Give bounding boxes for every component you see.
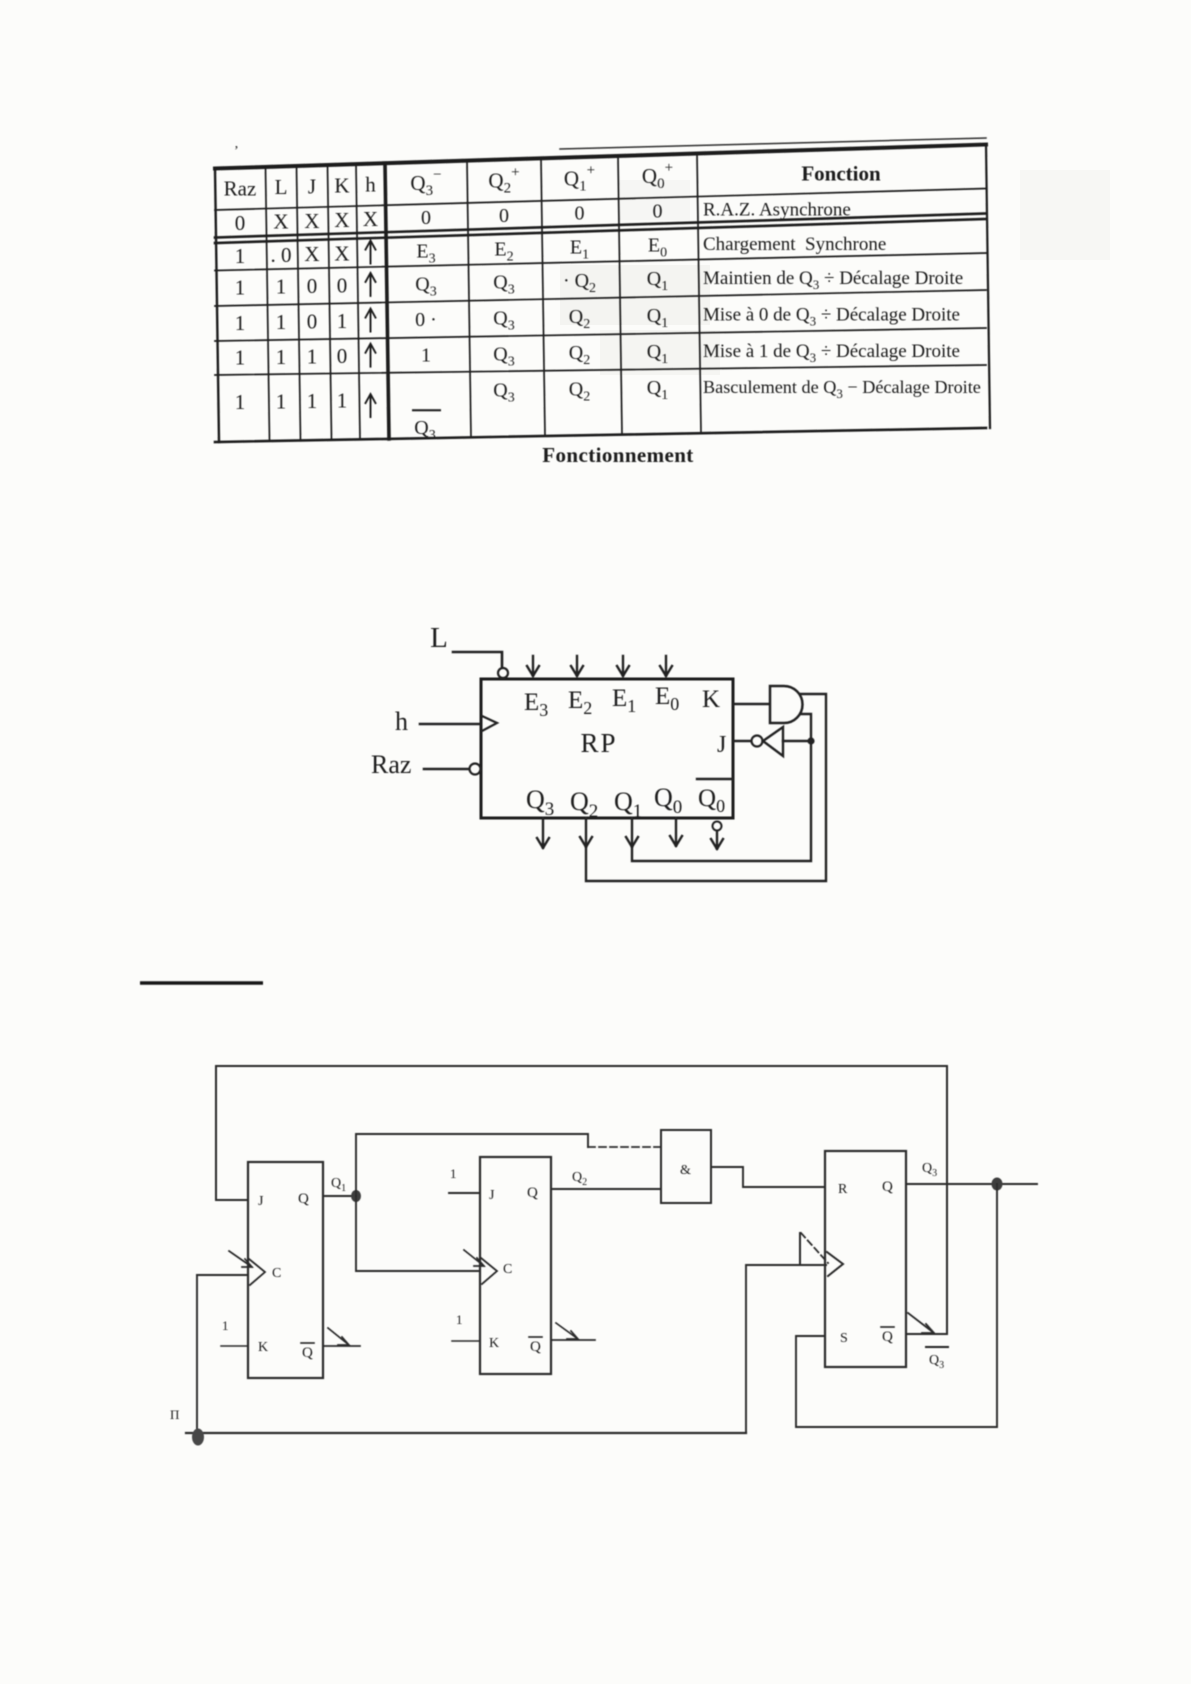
svg-text:1: 1 [235, 276, 246, 300]
bubble on Raz pin [470, 764, 481, 775]
svg-text:’: ’ [234, 144, 239, 159]
svg-text:Q: Q [302, 1345, 313, 1361]
svg-text:Π: Π [170, 1407, 179, 1422]
flip-flop U1 body [248, 1162, 323, 1378]
inverter triangle [763, 727, 783, 756]
svg-text:Q: Q [882, 1179, 893, 1195]
svg-text:1: 1 [456, 1312, 463, 1327]
junction node at clock source [192, 1429, 204, 1446]
U2 clock edge arrow [464, 1250, 484, 1266]
row rule 6 [215, 365, 986, 375]
svg-text:X: X [363, 207, 378, 231]
column divider J|K [328, 165, 332, 440]
svg-text:K: K [702, 686, 720, 713]
bleed-through ghost smudges [560, 170, 1110, 375]
svg-text:1: 1 [222, 1318, 229, 1333]
short heading rule [140, 981, 263, 984]
wire: AND output to U3.R [711, 1167, 825, 1187]
U1 Qbar overline [301, 1342, 314, 1344]
svg-text:Q: Q [298, 1191, 309, 1207]
U3 Qbar overline [881, 1326, 894, 1328]
AND gate U4 body [661, 1130, 711, 1203]
wire AND top output to outer loop [586, 694, 826, 881]
U1 clock chevron [249, 1259, 265, 1285]
row rule 4 [215, 290, 986, 306]
clock chevron on h pin [482, 716, 497, 731]
wire: node up to AND input rail [356, 1134, 588, 1196]
svg-text:1: 1 [276, 310, 287, 334]
arrow into E0 [660, 656, 672, 676]
row4 cell h: rising edge arrow [366, 309, 376, 332]
U2 Qbar edge glyph [556, 1323, 578, 1339]
row2 cell h: rising edge arrow [366, 241, 376, 264]
U1 Qbar edge glyph [328, 1328, 349, 1345]
junction node at U1.Q [351, 1190, 361, 1202]
wire: left clock riser [196, 1275, 198, 1433]
svg-text:K: K [489, 1336, 499, 1351]
thin scan double line above top border right half [560, 138, 986, 149]
wire K pin to AND gate [733, 703, 769, 705]
svg-text:Raz: Raz [224, 176, 257, 200]
U2 Qbar overline [529, 1336, 542, 1338]
bubble on L pin [498, 668, 508, 678]
svg-text:J: J [489, 1188, 495, 1203]
junction node [807, 737, 814, 744]
svg-text:S: S [840, 1331, 848, 1346]
wire L [453, 652, 502, 667]
svg-text:Chargement Synchrone: Chargement Synchrone [703, 234, 886, 255]
wire: right vertical of top feedback [946, 1066, 948, 1334]
output arrow Q0bar [711, 831, 723, 849]
wire: clock bus h [186, 1432, 746, 1434]
svg-text:1: 1 [307, 389, 318, 413]
thick column divider h|Q3 [385, 163, 389, 439]
svg-text:0: 0 [337, 273, 348, 297]
svg-text:0: 0 [235, 211, 246, 235]
column divider Q1|Q0 [618, 156, 622, 435]
svg-text:1: 1 [276, 389, 287, 413]
svg-text:X: X [273, 210, 288, 234]
svg-text:0: 0 [421, 207, 431, 229]
table top border [215, 145, 986, 169]
svg-text:C: C [272, 1266, 281, 1281]
row5 cell h: rising edge arrow [366, 344, 376, 367]
flip-flop U3 body [825, 1151, 906, 1367]
svg-text:Q: Q [530, 1339, 541, 1355]
arrowhead on Q1 loop line [626, 837, 638, 847]
bubble under Q0bar pin [713, 822, 722, 831]
svg-text:Q: Q [527, 1185, 538, 1201]
thick rule b under RAZ row [215, 219, 986, 243]
wire: node down to U2 clock [356, 1196, 480, 1271]
svg-text:0: 0 [575, 203, 585, 225]
U3 clock edge flag hypotenuse [801, 1233, 828, 1263]
wire: 1 into U2.K [452, 1340, 480, 1342]
svg-text:h: h [395, 707, 408, 736]
svg-text:X: X [304, 209, 319, 233]
wire AND lower output to node [801, 714, 811, 741]
row rule 3 [215, 253, 986, 271]
output arrow Q3 [537, 818, 549, 848]
wire Raz [424, 768, 468, 771]
svg-text:X: X [334, 208, 349, 232]
svg-text:Fonction: Fonction [801, 162, 881, 186]
table left border [215, 169, 219, 443]
column divider Q2|Q1 [541, 158, 545, 436]
arrow into E2 [571, 656, 583, 676]
svg-text:J: J [308, 174, 316, 198]
svg-text:0: 0 [499, 205, 509, 227]
svg-text:R.A.Z. Asynchrone: R.A.Z. Asynchrone [703, 200, 851, 221]
svg-text:K: K [334, 173, 349, 197]
output arrow Q0 [670, 818, 682, 846]
wire: top feedback Q3bar to FF1.J [216, 1066, 947, 1200]
wire: 1 into U2.J [449, 1192, 480, 1194]
wire: dashed segment into AND gate input [588, 1146, 661, 1148]
svg-text:R: R [838, 1182, 848, 1197]
svg-text:1: 1 [337, 389, 348, 413]
table bottom border [215, 428, 986, 442]
wire node down to inner loop [632, 741, 811, 861]
U3 clock edge flag vertical [799, 1233, 801, 1264]
svg-text:J: J [258, 1194, 264, 1209]
row3 cell h: rising edge arrow [366, 273, 376, 296]
svg-text:0: 0 [307, 274, 318, 298]
table header underline [215, 189, 986, 211]
svg-text:&: & [680, 1163, 691, 1178]
svg-text:0 ·: 0 · [415, 309, 437, 331]
svg-text:1: 1 [235, 346, 246, 370]
svg-text:Raz: Raz [371, 750, 411, 779]
U2 Qbar stub wire [551, 1339, 595, 1341]
svg-text:Fonctionnement: Fonctionnement [542, 443, 693, 467]
overline of net label Q3 bar [926, 1346, 948, 1348]
wire: clock riser to U3.C [746, 1265, 826, 1431]
wire J pin to inverter bubble [733, 740, 751, 742]
arrowhead on Q2 loop line [580, 837, 592, 847]
svg-text:X: X [304, 242, 319, 266]
svg-text:Q: Q [882, 1329, 893, 1345]
arrow into E1 [617, 656, 629, 676]
svg-text:L: L [275, 175, 288, 199]
wire: 1 into U1.K [221, 1345, 248, 1347]
svg-text:Maintien de Q3 ÷ Décalage Droi: Maintien de Q3 ÷ Décalage Droite [703, 268, 963, 292]
column divider Q0|Fonction [697, 154, 701, 434]
svg-text:RP: RP [580, 728, 617, 758]
svg-text:Mise à 1 de Q3 ÷ Décalage Droi: Mise à 1 de Q3 ÷ Décalage Droite [703, 341, 960, 365]
U3 Qbar edge glyph [908, 1313, 934, 1333]
AND gate [770, 686, 803, 723]
svg-text:X: X [334, 241, 349, 265]
wire: U3.Q output [906, 1183, 1037, 1185]
svg-text:C: C [503, 1262, 512, 1277]
svg-text:L: L [430, 622, 448, 654]
svg-text:. 0: . 0 [271, 243, 292, 267]
U3 clock chevron [827, 1252, 843, 1276]
column divider K|h [356, 164, 360, 439]
svg-text:1: 1 [307, 345, 318, 369]
wire: S feedback loop from U3.Q junction [796, 1184, 997, 1427]
svg-text:0: 0 [653, 200, 663, 222]
wire inverter to node [783, 740, 811, 742]
inverter bubble [752, 736, 763, 747]
svg-text:1: 1 [235, 244, 246, 268]
U1 Qbar stub wire [323, 1345, 360, 1347]
overline of Q0 bar [697, 778, 733, 780]
svg-text:1: 1 [450, 1166, 457, 1181]
U2 clock chevron [481, 1258, 497, 1284]
wire: U1.Q output [323, 1195, 356, 1197]
column divider Raz|L [266, 167, 270, 441]
column divider Q3|Q2 [467, 161, 471, 438]
register block RP [481, 679, 733, 818]
wire h [420, 723, 479, 726]
svg-text:1: 1 [276, 345, 287, 369]
svg-text:1: 1 [235, 311, 246, 335]
svg-text:1: 1 [235, 390, 246, 414]
thick rule a under RAZ row [215, 214, 986, 238]
row6 cell Q3: overlined Q3 [413, 409, 440, 411]
junction node on U3.Q [992, 1178, 1003, 1191]
svg-text:J: J [717, 732, 726, 758]
table right border [986, 145, 990, 429]
column divider L|J [297, 166, 301, 441]
row rule 5 [215, 328, 986, 341]
wire: clock into U1.C [197, 1274, 248, 1276]
U1 clock edge arrow [229, 1251, 252, 1267]
svg-text:h: h [365, 173, 376, 197]
svg-text:Mise à 0 de Q3 ÷ Décalage Droi: Mise à 0 de Q3 ÷ Décalage Droite [703, 305, 960, 329]
svg-text:1: 1 [337, 309, 348, 333]
flip-flop U2 body [480, 1157, 551, 1374]
svg-text:1: 1 [276, 275, 287, 299]
wire: U3.Qbar output to right feedback vertical [906, 1333, 947, 1335]
svg-text:1: 1 [421, 345, 431, 367]
svg-text:0: 0 [337, 344, 348, 368]
svg-text:K: K [258, 1340, 268, 1355]
wire: U2.Q to AND gate [551, 1188, 661, 1190]
row6 cell h: rising edge arrow [366, 394, 376, 417]
svg-text:0: 0 [307, 310, 318, 334]
arrow into E3 [527, 656, 539, 676]
